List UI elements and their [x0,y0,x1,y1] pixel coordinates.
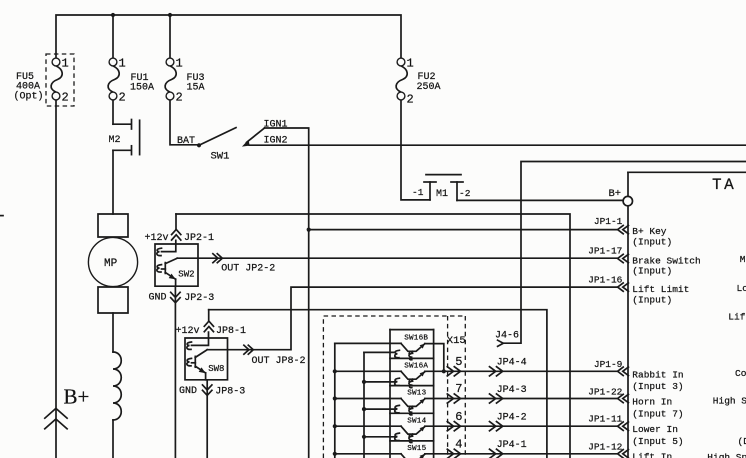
svg-text:2: 2 [176,90,183,104]
svg-text:Horn In: Horn In [632,397,672,408]
svg-text:GND: GND [149,292,167,303]
svg-text:JP4-3: JP4-3 [497,385,527,396]
svg-text:150A: 150A [130,82,154,93]
svg-text:(Input 5): (Input 5) [632,436,683,447]
svg-text:5: 5 [455,355,462,369]
svg-text:Rabbit In: Rabbit In [632,370,683,381]
svg-text:7: 7 [455,382,462,396]
svg-text:1: 1 [407,56,414,70]
svg-text:15A: 15A [187,82,205,93]
svg-text:1: 1 [62,56,69,70]
svg-text:JP2-1: JP2-1 [184,233,214,244]
svg-text:B+: B+ [64,385,90,409]
svg-text:IGN2: IGN2 [264,135,288,146]
svg-text:OUT JP2-2: OUT JP2-2 [221,264,275,275]
svg-text:JP1-22: JP1-22 [588,386,623,397]
svg-text:MP: MP [104,258,118,270]
svg-text:JP1-11: JP1-11 [588,414,623,425]
svg-text:SW16A: SW16A [404,362,428,370]
svg-text:(Input): (Input) [632,295,672,306]
svg-text:JP8-1: JP8-1 [216,326,246,337]
svg-text:SW16B: SW16B [404,335,428,343]
svg-text:SW1: SW1 [211,151,230,163]
svg-text:(Opt): (Opt) [14,91,44,103]
svg-text:(Input 3): (Input 3) [632,381,683,392]
svg-text:250A: 250A [417,82,441,93]
svg-text:Lif: Lif [728,312,745,323]
svg-text:+12v: +12v [145,233,169,244]
svg-text:JP4-4: JP4-4 [497,358,527,369]
svg-text:-2: -2 [459,188,471,199]
svg-text:J4-6: J4-6 [495,330,519,341]
svg-text:SW14: SW14 [407,417,426,425]
svg-text:M2: M2 [109,135,121,146]
svg-text:1: 1 [176,56,183,70]
svg-text:Co: Co [735,368,746,379]
svg-text:2: 2 [119,90,126,104]
svg-text:SW2: SW2 [178,270,194,280]
svg-text:SW8: SW8 [208,364,224,374]
svg-text:1: 1 [119,56,126,70]
svg-text:Lift Limit: Lift Limit [632,284,689,295]
svg-text:High Spe: High Spe [707,452,746,458]
svg-text:M1: M1 [436,189,448,200]
svg-text:2: 2 [62,90,69,104]
svg-text:(Input 7): (Input 7) [632,409,683,420]
svg-text:JP1-17: JP1-17 [588,246,622,257]
svg-text:Lower In: Lower In [632,424,678,435]
svg-text:BAT: BAT [177,136,195,147]
svg-text:SW13: SW13 [407,390,426,398]
svg-text:Lift In: Lift In [632,451,672,458]
svg-text:+12v: +12v [176,326,200,337]
svg-text:(D: (D [738,436,746,447]
svg-text:SW15: SW15 [407,445,426,453]
svg-text:JP2-3: JP2-3 [184,293,214,304]
svg-text:JP1-16: JP1-16 [588,274,623,285]
svg-text:GND: GND [179,386,197,397]
svg-text:JP1-9: JP1-9 [594,359,623,370]
svg-text:IGN1: IGN1 [264,119,288,130]
svg-text:(Input): (Input) [632,266,672,277]
svg-text:X15: X15 [447,335,466,347]
svg-text:High S: High S [713,395,746,406]
svg-text:-1: -1 [412,187,424,198]
svg-text:JP1-1: JP1-1 [594,216,623,227]
svg-text:JP4-2: JP4-2 [497,413,527,424]
svg-text:JP1-12: JP1-12 [588,442,623,453]
svg-text:OUT JP8-2: OUT JP8-2 [252,356,306,367]
svg-text:M: M [740,254,746,265]
svg-text:JP4-1: JP4-1 [497,440,527,451]
svg-text:TA: TA [712,176,736,194]
svg-text:4: 4 [455,438,462,452]
svg-text:Lo: Lo [737,283,746,294]
svg-text:2: 2 [407,92,414,106]
svg-text:6: 6 [455,410,462,424]
svg-text:JP8-3: JP8-3 [215,386,245,397]
svg-text:(Input): (Input) [632,237,672,248]
svg-text:B+: B+ [609,188,622,200]
